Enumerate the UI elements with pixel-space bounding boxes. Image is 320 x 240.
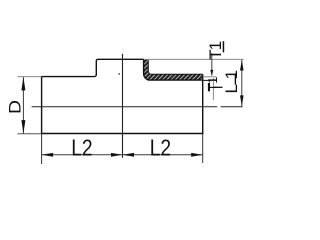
svg-text:L2: L2 (71, 134, 93, 160)
L1 lower arrowhead (240, 95, 244, 106)
T1 upper dimension shaft (211, 53, 213, 75)
run axis centerline segment 2 (221, 106, 243, 108)
label T1 lower crossbar bold (208, 83, 210, 91)
dimension D upper arrowhead (21, 77, 25, 91)
branch axis centerline (122, 54, 124, 158)
label L1 serif tick (235, 73, 236, 84)
label T1 lower stem extension (214, 86, 223, 88)
left L2 inner arrowhead (111, 153, 123, 157)
svg-text:T1: T1 (206, 41, 225, 59)
wall bottom extension line (203, 79, 217, 81)
dimension D line (22, 77, 24, 133)
thin branch-end line over section (144, 58, 244, 60)
dimension D top extension line (18, 76, 42, 78)
left L2 outer arrowhead (42, 153, 54, 157)
dimension D lower arrowhead (21, 120, 25, 134)
T1 upper arrowhead (210, 70, 213, 76)
branch wall section hatch fill (144, 59, 203, 80)
L1 upper arrowhead (240, 60, 244, 71)
tee body right edge (202, 74, 204, 133)
T1 lower dimension shaft (212, 78, 214, 100)
branch wall outer boundary (144, 59, 203, 80)
right L2 outer arrowhead (191, 153, 203, 157)
L2 dimension line (42, 154, 203, 156)
run axis centerline segment 1 (32, 106, 218, 108)
svg-text:D: D (6, 100, 25, 114)
L2 left extension line (41, 134, 43, 164)
dimension D bottom extension line (18, 133, 42, 135)
label T1 top serif tick (223, 41, 225, 52)
tee body bottom edge (41, 133, 204, 135)
L2 right extension line (202, 134, 204, 163)
right L2 inner arrowhead (123, 153, 135, 157)
L1 dimension line (241, 60, 243, 106)
branch wall inner boundary (148, 59, 202, 74)
centerline dot mark (118, 73, 120, 75)
svg-text:L1: L1 (222, 65, 241, 93)
svg-text:L2: L2 (150, 134, 172, 160)
wall top extension line (203, 76, 216, 78)
tee body outline: left edge, top surface, branch step (42, 59, 144, 133)
